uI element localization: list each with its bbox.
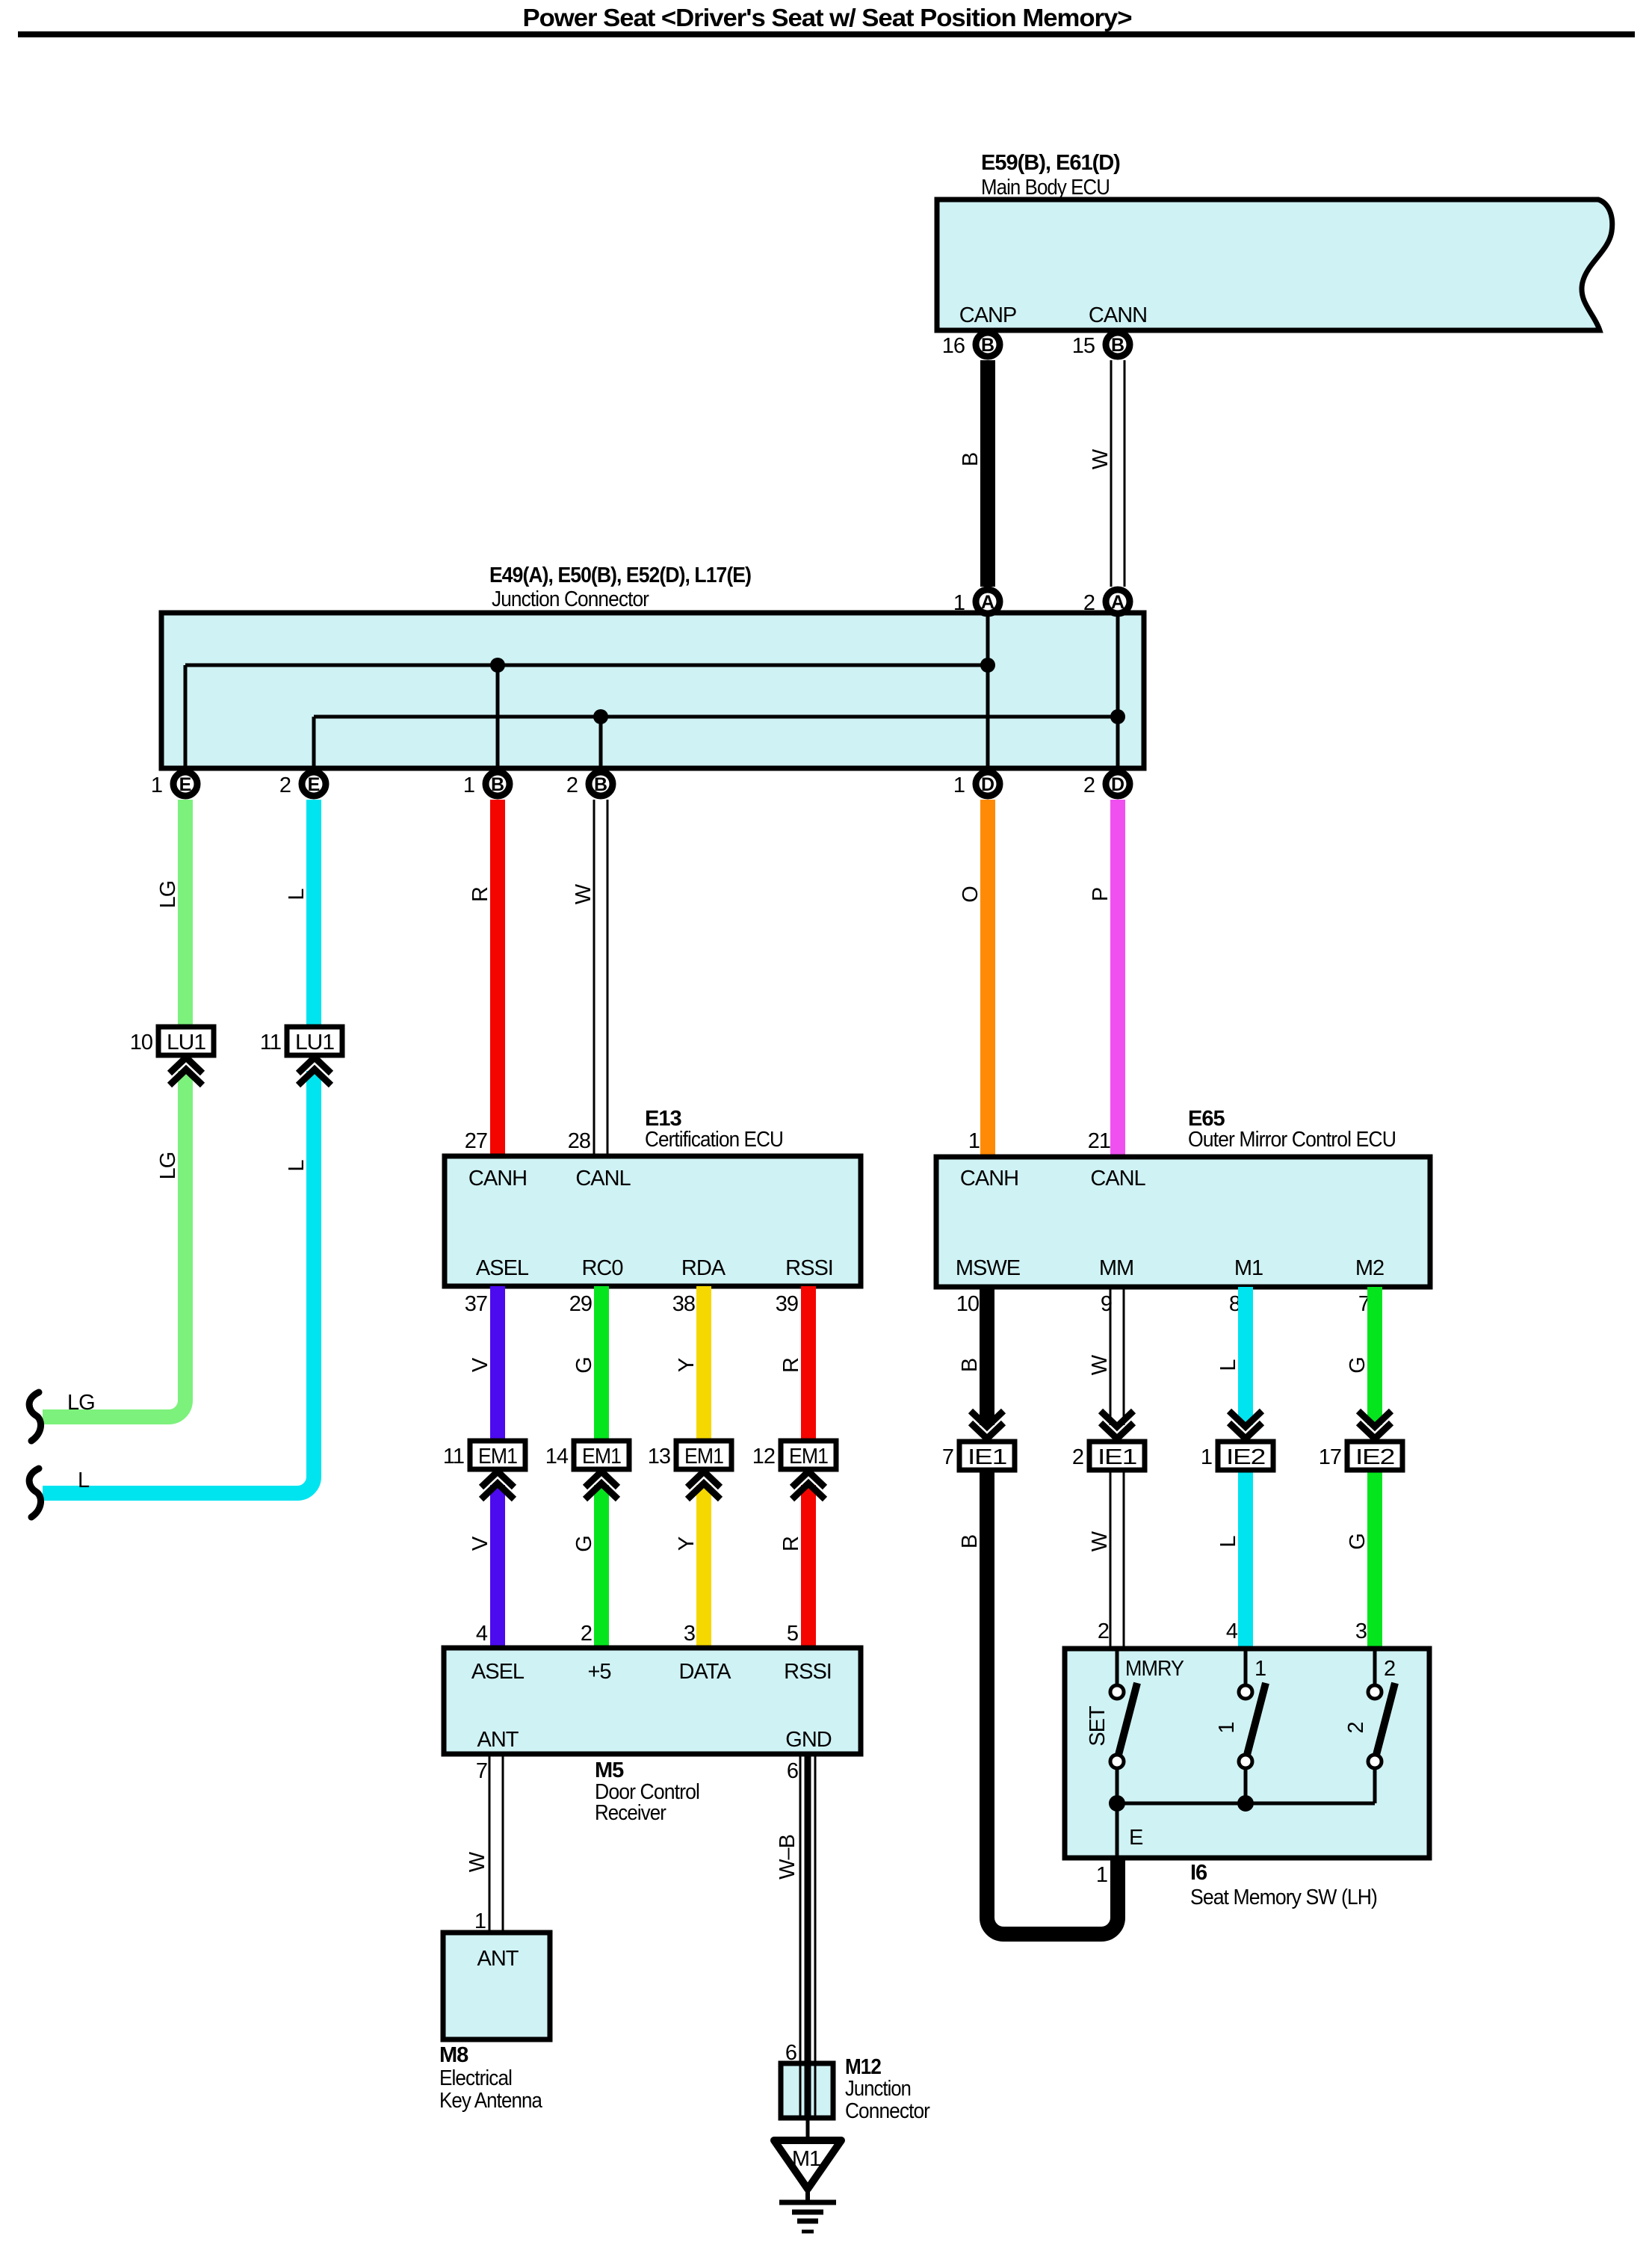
svg-text:G: G xyxy=(572,1536,596,1552)
svg-text:Receiver: Receiver xyxy=(595,1801,666,1825)
svg-text:G: G xyxy=(1346,1534,1370,1550)
junction connector pin 2E xyxy=(279,772,326,797)
svg-text:E59(B), E61(D): E59(B), E61(D) xyxy=(981,151,1120,175)
svg-text:RC0: RC0 xyxy=(581,1256,622,1280)
wire P from junction pin 2D to E65 CANL xyxy=(1110,800,1125,1157)
svg-text:G: G xyxy=(572,1357,596,1374)
svg-text:ASEL: ASEL xyxy=(471,1660,525,1684)
svg-text:1: 1 xyxy=(463,773,474,797)
svg-text:D: D xyxy=(1111,774,1124,795)
wire R from E13 RSSI to connector EM1 xyxy=(801,1286,816,1442)
junction connector box xyxy=(161,613,1144,768)
svg-text:2: 2 xyxy=(1072,1445,1083,1469)
svg-text:3: 3 xyxy=(684,1622,695,1646)
svg-text:2: 2 xyxy=(1083,591,1095,615)
wire W-B from M5 GND through junction connector M12 xyxy=(800,1754,815,2118)
connector LU1 pin 11 on L wire xyxy=(260,1027,342,1085)
wire G from E13 RC0 to connector EM1 xyxy=(594,1286,609,1442)
svg-text:CANN: CANN xyxy=(1089,303,1147,327)
junction connector pin 1A xyxy=(953,590,1000,615)
svg-text:2: 2 xyxy=(566,773,578,797)
svg-text:CANP: CANP xyxy=(959,303,1017,327)
svg-text:1: 1 xyxy=(1201,1445,1212,1469)
svg-text:1: 1 xyxy=(953,591,965,615)
connector EM1 pin 11 on V wire xyxy=(443,1441,525,1499)
svg-text:2: 2 xyxy=(581,1622,592,1646)
svg-text:3: 3 xyxy=(1355,1619,1367,1643)
junction connector pin 2A xyxy=(1083,590,1130,615)
ECU E13 Certification ECU box xyxy=(445,1156,861,1286)
svg-text:LG: LG xyxy=(67,1391,95,1415)
I6 memory switch 1 xyxy=(1239,1649,1266,1803)
svg-text:11: 11 xyxy=(443,1445,464,1469)
svg-text:RDA: RDA xyxy=(681,1256,726,1280)
svg-text:Certification ECU: Certification ECU xyxy=(645,1128,783,1152)
svg-text:EM1: EM1 xyxy=(478,1445,517,1469)
svg-text:E: E xyxy=(1129,1826,1143,1850)
svg-text:GND: GND xyxy=(785,1728,832,1752)
svg-text:37: 37 xyxy=(465,1292,487,1316)
svg-text:L: L xyxy=(285,1160,309,1172)
svg-text:+5: +5 xyxy=(587,1660,610,1684)
svg-text:IE1: IE1 xyxy=(1098,1445,1136,1469)
connector EM1 pin 12 on R wire xyxy=(752,1441,836,1499)
svg-text:E49(A), E50(B), E52(D), L17(E): E49(A), E50(B), E52(D), L17(E) xyxy=(489,563,751,587)
svg-text:A: A xyxy=(981,592,994,613)
junction connector internal bus wires xyxy=(185,598,1118,771)
title rule xyxy=(18,31,1635,37)
connector IE2 pin 17 on G wire xyxy=(1319,1411,1402,1470)
svg-text:A: A xyxy=(1111,592,1124,613)
svg-text:Junction Connector: Junction Connector xyxy=(492,587,649,611)
svg-text:MSWE: MSWE xyxy=(956,1256,1021,1280)
svg-text:RSSI: RSSI xyxy=(784,1660,832,1684)
svg-text:W: W xyxy=(1089,448,1113,469)
svg-text:L: L xyxy=(1216,1359,1240,1371)
svg-text:1: 1 xyxy=(1215,1722,1239,1733)
wire from M12 to ground point M1 xyxy=(806,2118,810,2142)
wire W from E65 MM to connector IE1 xyxy=(1110,1287,1124,1425)
connector IE1 pin 2 on W wire xyxy=(1072,1411,1145,1470)
svg-text:B: B xyxy=(959,453,983,466)
I6 common wire to E xyxy=(1117,1802,1375,1806)
svg-text:E: E xyxy=(308,774,321,795)
wire R from junction pin 1B to E13 CANH xyxy=(490,800,505,1156)
svg-text:Main Body ECU: Main Body ECU xyxy=(981,176,1110,200)
junction dot at bus1/pin1B xyxy=(490,658,505,673)
svg-text:5: 5 xyxy=(787,1622,798,1646)
junction connector pin 1D xyxy=(953,772,1000,797)
ECU E65 Outer Mirror Control ECU box xyxy=(936,1157,1430,1287)
svg-text:Seat Memory SW (LH): Seat Memory SW (LH) xyxy=(1190,1886,1377,1909)
wire LG from connector LU1, turns left to page edge xyxy=(43,1071,185,1417)
svg-text:Junction: Junction xyxy=(845,2077,911,2101)
svg-text:L: L xyxy=(285,889,309,901)
I6 memory switch 2 xyxy=(1368,1649,1395,1803)
ground point M1 triangle xyxy=(774,2140,841,2189)
receiver M5 Door Control Receiver box xyxy=(444,1648,861,1754)
svg-text:LU1: LU1 xyxy=(167,1031,205,1054)
svg-text:W: W xyxy=(572,883,595,904)
svg-text:Y: Y xyxy=(675,1358,699,1372)
junction connector pin 2B xyxy=(566,772,613,797)
wire G from E65 M2 to connector IE2 xyxy=(1367,1287,1382,1425)
pin 16 (B) of Main Body ECU xyxy=(942,333,1000,358)
pin 15 (B) of Main Body ECU xyxy=(1072,333,1130,358)
junction connector pin 2D xyxy=(1083,772,1130,797)
svg-text:6: 6 xyxy=(787,1759,798,1783)
svg-text:1: 1 xyxy=(1255,1657,1266,1681)
connector EM1 pin 13 on Y wire xyxy=(648,1441,731,1499)
svg-text:13: 13 xyxy=(648,1445,670,1469)
wire L from E65 M1 to connector IE2 xyxy=(1238,1287,1253,1425)
svg-text:38: 38 xyxy=(672,1292,695,1316)
svg-text:1: 1 xyxy=(1096,1863,1107,1887)
wire W from connector IE1 to I6 MMRY pin 2 xyxy=(1110,1470,1124,1649)
svg-text:G: G xyxy=(1346,1357,1370,1374)
svg-text:V: V xyxy=(468,1536,492,1551)
svg-text:1: 1 xyxy=(474,1909,486,1933)
svg-text:Connector: Connector xyxy=(845,2099,930,2123)
svg-text:M1: M1 xyxy=(1234,1256,1263,1280)
wire B (black) from E65 MSWE to connector IE1 xyxy=(980,1287,994,1425)
connector IE2 pin 1 on L wire xyxy=(1201,1411,1273,1470)
svg-text:Power Seat <Driver's Seat w/ S: Power Seat <Driver's Seat w/ Seat Positi… xyxy=(523,4,1132,31)
junction dot at bus2/pin2B xyxy=(593,709,608,724)
svg-text:W: W xyxy=(1088,1354,1112,1375)
svg-text:O: O xyxy=(959,886,983,903)
wire W from junction pin 2B to E13 CANL xyxy=(594,800,607,1156)
svg-text:V: V xyxy=(468,1357,492,1372)
svg-text:12: 12 xyxy=(752,1445,775,1469)
svg-text:B: B xyxy=(958,1359,982,1372)
svg-text:L: L xyxy=(1216,1536,1240,1548)
wire L from junction pin 2E to connector LU1 xyxy=(306,800,321,1029)
ground symbol xyxy=(779,2189,836,2232)
wire Y from connector EM1 to M5 DATA xyxy=(696,1485,711,1648)
wire LG from junction pin 1E to connector LU1 xyxy=(178,800,193,1029)
svg-text:ANT: ANT xyxy=(477,1728,519,1752)
wire O from junction pin 1D to E65 CANH xyxy=(980,800,995,1157)
svg-text:CANL: CANL xyxy=(1090,1167,1145,1191)
svg-text:28: 28 xyxy=(568,1129,590,1153)
wire Y from E13 RDA to connector EM1 xyxy=(696,1286,711,1442)
ECU E59/E61 Main Body ECU box xyxy=(937,200,1612,330)
wire G from connector IE2 to I6 pin 3 xyxy=(1367,1470,1382,1649)
wire V from E13 ASEL to connector EM1 xyxy=(490,1286,505,1442)
svg-text:R: R xyxy=(779,1358,803,1373)
svg-text:Y: Y xyxy=(675,1537,699,1551)
svg-text:M2: M2 xyxy=(1355,1256,1384,1280)
svg-text:IE2: IE2 xyxy=(1226,1445,1265,1469)
wire V from connector EM1 to M5 ASEL xyxy=(490,1485,505,1648)
svg-text:M5: M5 xyxy=(595,1758,624,1782)
svg-text:CANH: CANH xyxy=(960,1167,1018,1191)
svg-text:10: 10 xyxy=(956,1292,979,1316)
svg-text:7: 7 xyxy=(476,1759,487,1783)
svg-text:Outer Mirror Control ECU: Outer Mirror Control ECU xyxy=(1188,1128,1396,1152)
wire L from connector IE2 to I6 pin 4 xyxy=(1238,1470,1253,1649)
svg-text:LG: LG xyxy=(156,1152,180,1180)
svg-text:M12: M12 xyxy=(845,2055,881,2079)
svg-text:L: L xyxy=(78,1469,90,1492)
svg-text:W: W xyxy=(465,1851,489,1872)
svg-text:39: 39 xyxy=(776,1292,798,1316)
svg-text:EM1: EM1 xyxy=(684,1445,723,1469)
svg-text:CANH: CANH xyxy=(468,1167,527,1191)
connector EM1 pin 14 on G wire xyxy=(545,1441,629,1499)
svg-text:W: W xyxy=(1088,1531,1112,1551)
svg-text:B: B xyxy=(594,774,607,795)
svg-text:P: P xyxy=(1089,888,1113,901)
svg-text:R: R xyxy=(779,1537,803,1551)
svg-text:2: 2 xyxy=(1098,1619,1109,1643)
svg-text:I6: I6 xyxy=(1190,1861,1207,1885)
wire W from M5 ANT to M8 antenna xyxy=(489,1754,503,1933)
svg-text:M8: M8 xyxy=(439,2043,468,2067)
svg-text:B: B xyxy=(958,1535,982,1548)
svg-text:1: 1 xyxy=(151,773,162,797)
junction dot I6 common/sw1 xyxy=(1237,1795,1254,1812)
svg-text:2: 2 xyxy=(1083,773,1095,797)
svg-text:21: 21 xyxy=(1088,1129,1110,1153)
svg-text:MMRY: MMRY xyxy=(1125,1657,1184,1681)
svg-text:ASEL: ASEL xyxy=(476,1256,529,1280)
svg-text:10: 10 xyxy=(130,1031,152,1054)
svg-text:RSSI: RSSI xyxy=(785,1256,833,1280)
connector IE1 pin 7 on B wire xyxy=(942,1411,1015,1470)
svg-text:2: 2 xyxy=(1344,1722,1368,1733)
continuation squiggle on LG wire xyxy=(29,1392,40,1441)
svg-text:LG: LG xyxy=(156,881,180,909)
svg-text:IE2: IE2 xyxy=(1355,1445,1394,1469)
svg-text:1: 1 xyxy=(968,1129,980,1153)
junction dot I6 common/SET xyxy=(1109,1795,1125,1812)
svg-text:1: 1 xyxy=(953,773,965,797)
svg-text:E: E xyxy=(179,774,192,795)
svg-text:IE1: IE1 xyxy=(968,1445,1006,1469)
svg-text:CANL: CANL xyxy=(575,1167,631,1191)
I6 MMRY/SET switch xyxy=(1110,1649,1137,1803)
connector LU1 pin 10 on LG wire xyxy=(130,1027,214,1085)
svg-text:MM: MM xyxy=(1099,1256,1133,1280)
junction connector M12 box xyxy=(781,2063,833,2118)
svg-text:B: B xyxy=(981,335,994,356)
svg-text:14: 14 xyxy=(545,1445,569,1469)
svg-text:15: 15 xyxy=(1072,334,1095,358)
wire G from connector EM1 to M5 +5 xyxy=(594,1485,609,1648)
svg-text:ANT: ANT xyxy=(477,1947,519,1971)
svg-text:W–B: W–B xyxy=(776,1835,799,1880)
svg-text:EM1: EM1 xyxy=(582,1445,621,1469)
junction dot at bus2/pin2A xyxy=(1110,709,1125,724)
svg-text:4: 4 xyxy=(1226,1619,1238,1643)
svg-text:Electrical: Electrical xyxy=(439,2066,512,2090)
svg-text:4: 4 xyxy=(476,1622,488,1646)
antenna M8 Electrical Key Antenna box xyxy=(443,1933,550,2039)
wire L from connector LU1, turns left to page edge xyxy=(43,1071,314,1493)
svg-text:M1: M1 xyxy=(792,2147,820,2171)
junction connector pin 1E xyxy=(151,772,197,797)
svg-text:SET: SET xyxy=(1086,1705,1110,1747)
switch I6 Seat Memory SW (LH) box xyxy=(1065,1649,1429,1858)
junction dot at bus1/pin1A xyxy=(980,658,995,673)
svg-text:B: B xyxy=(1111,335,1124,356)
junction connector pin 1B xyxy=(463,772,510,797)
svg-text:R: R xyxy=(468,887,492,902)
svg-text:17: 17 xyxy=(1319,1445,1341,1469)
svg-text:Key Antenna: Key Antenna xyxy=(439,2089,543,2113)
svg-text:EM1: EM1 xyxy=(789,1445,828,1469)
wire B (black) from connector IE1 to I6 pin 1/E xyxy=(987,1470,1118,1934)
continuation squiggle on L wire xyxy=(29,1469,40,1517)
svg-text:11: 11 xyxy=(260,1031,281,1054)
svg-text:2: 2 xyxy=(1384,1657,1395,1681)
svg-text:B: B xyxy=(491,774,504,795)
svg-text:2: 2 xyxy=(279,773,291,797)
svg-text:LU1: LU1 xyxy=(295,1031,334,1054)
svg-text:27: 27 xyxy=(465,1129,487,1153)
svg-text:16: 16 xyxy=(942,334,965,358)
svg-text:29: 29 xyxy=(569,1292,592,1316)
wire R from connector EM1 to M5 RSSI xyxy=(801,1485,816,1648)
svg-text:7: 7 xyxy=(942,1445,953,1469)
wire W (CANN, white) from Main Body ECU pin 15 to junction connector pin 2A xyxy=(1111,360,1124,587)
svg-text:D: D xyxy=(981,774,994,795)
svg-text:DATA: DATA xyxy=(678,1660,731,1684)
wire B (CANP, black) from Main Body ECU pin 16 to junction connector pin 1A xyxy=(980,360,995,587)
